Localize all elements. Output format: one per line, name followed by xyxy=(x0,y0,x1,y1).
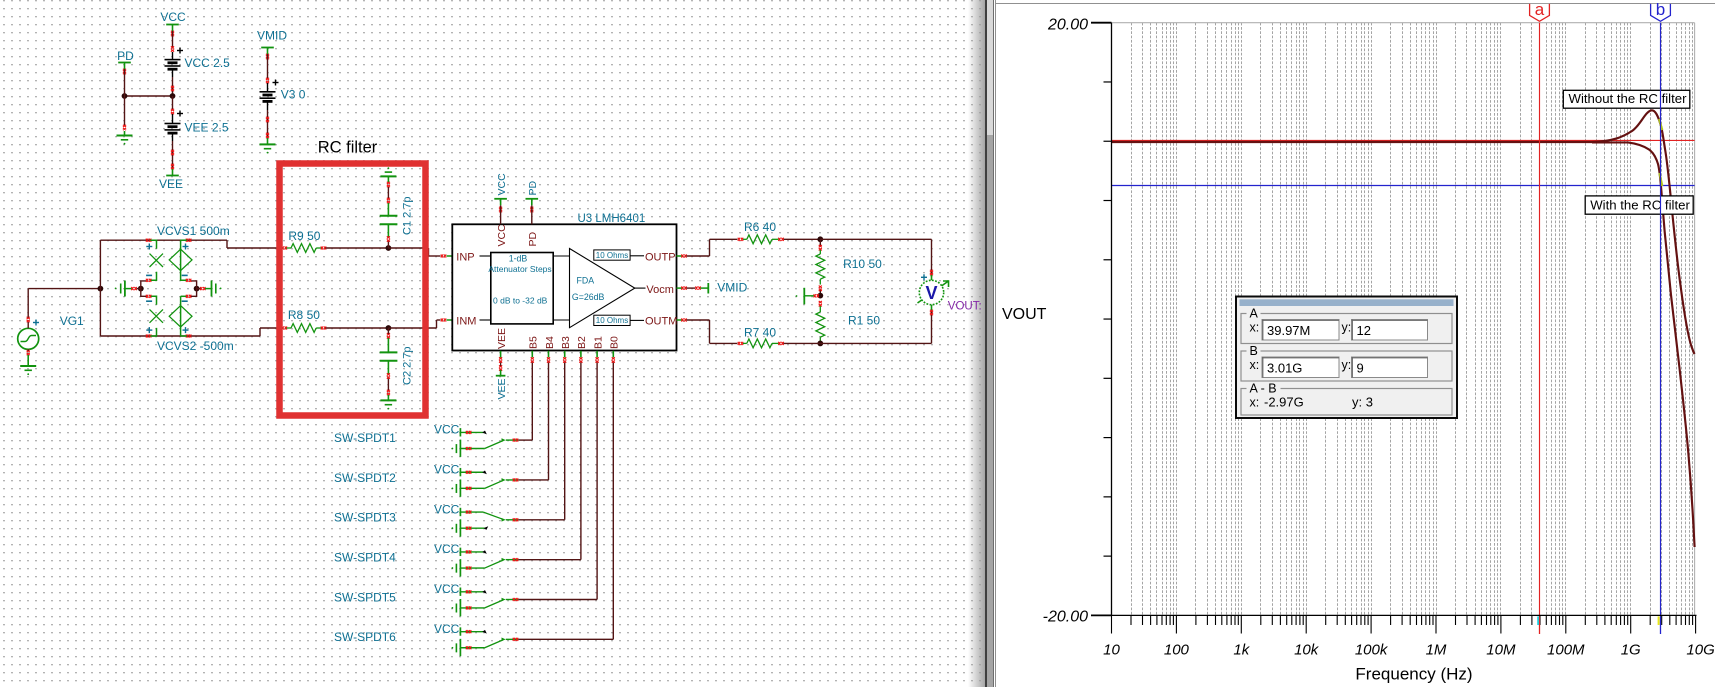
svg-text:12: 12 xyxy=(1357,323,1371,338)
svg-text:3.01G: 3.01G xyxy=(1267,361,1302,376)
svg-text:10M: 10M xyxy=(1486,642,1516,659)
svg-text:SW-SPDT4: SW-SPDT4 xyxy=(334,550,396,564)
svg-text:100M: 100M xyxy=(1547,642,1585,659)
svg-text:VG1: VG1 xyxy=(60,314,84,328)
svg-text:b: b xyxy=(1656,0,1665,19)
svg-text:x:: x: xyxy=(1250,358,1260,372)
svg-text:10 Ohms: 10 Ohms xyxy=(596,316,628,325)
svg-text:10: 10 xyxy=(1103,642,1120,659)
svg-text:VCC: VCC xyxy=(434,502,460,516)
svg-text:B4: B4 xyxy=(544,336,556,349)
svg-text:VCC 2.5: VCC 2.5 xyxy=(185,56,231,70)
svg-text:INP: INP xyxy=(456,251,474,263)
svg-text:10G: 10G xyxy=(1686,642,1715,659)
svg-text:SW-SPDT5: SW-SPDT5 xyxy=(334,590,396,604)
svg-text:20.00: 20.00 xyxy=(1047,17,1088,34)
svg-text:SW-SPDT1: SW-SPDT1 xyxy=(334,431,396,445)
svg-text:With the RC filter: With the RC filter xyxy=(1590,197,1690,212)
svg-text:39.97M: 39.97M xyxy=(1267,323,1310,338)
svg-text:1M: 1M xyxy=(1426,642,1447,659)
svg-text:VCVS2 -500m: VCVS2 -500m xyxy=(157,339,234,353)
svg-text:RC filter: RC filter xyxy=(318,139,378,157)
svg-text:-2.97G: -2.97G xyxy=(1264,395,1304,410)
svg-text:PD: PD xyxy=(117,49,134,63)
svg-text:0 dB to -32 dB: 0 dB to -32 dB xyxy=(493,295,548,305)
svg-text:B0: B0 xyxy=(609,336,621,349)
svg-text:B3: B3 xyxy=(560,336,572,349)
svg-text:1G: 1G xyxy=(1621,642,1641,659)
svg-text:B5: B5 xyxy=(528,336,540,349)
svg-text:y:: y: xyxy=(1342,321,1352,335)
svg-text:R7 40: R7 40 xyxy=(744,326,776,340)
svg-text:VOUT: VOUT xyxy=(1002,306,1047,323)
svg-text:R1 50: R1 50 xyxy=(848,314,880,328)
svg-text:SW-SPDT2: SW-SPDT2 xyxy=(334,471,396,485)
svg-text:1k: 1k xyxy=(1233,642,1250,659)
svg-text:VCC: VCC xyxy=(434,582,460,596)
svg-text:U3 LMH6401: U3 LMH6401 xyxy=(578,213,646,225)
svg-text:VCC: VCC xyxy=(434,462,460,476)
svg-text:R6 40: R6 40 xyxy=(744,220,776,234)
svg-text:Frequency (Hz): Frequency (Hz) xyxy=(1355,665,1472,684)
svg-text:VCVS1 500m: VCVS1 500m xyxy=(157,224,230,238)
svg-text:R9 50: R9 50 xyxy=(288,229,320,243)
svg-text:FDA: FDA xyxy=(577,276,595,286)
svg-text:OUTP: OUTP xyxy=(645,251,676,263)
svg-text:1-dB: 1-dB xyxy=(509,253,528,263)
svg-text:V: V xyxy=(925,283,937,303)
svg-text:VCC: VCC xyxy=(434,423,460,437)
svg-text:y: 3: y: 3 xyxy=(1352,395,1373,410)
svg-text:y:: y: xyxy=(1342,358,1352,372)
svg-text:C2 2.7p: C2 2.7p xyxy=(402,346,414,385)
svg-text:OUTM: OUTM xyxy=(645,316,677,328)
svg-text:VCC: VCC xyxy=(496,224,508,247)
svg-text:B: B xyxy=(1250,344,1258,358)
svg-text:R10 50: R10 50 xyxy=(843,257,882,271)
svg-text:VCC: VCC xyxy=(496,173,508,196)
svg-text:VEE: VEE xyxy=(496,328,508,349)
svg-text:R8 50: R8 50 xyxy=(288,308,320,322)
svg-text:VCC: VCC xyxy=(434,622,460,636)
svg-text:VEE: VEE xyxy=(496,378,508,399)
svg-text:-20.00: -20.00 xyxy=(1043,609,1088,626)
svg-text:PD: PD xyxy=(527,231,539,246)
svg-text:VCC: VCC xyxy=(434,542,460,556)
svg-text:x:: x: xyxy=(1250,321,1260,335)
svg-text:VOUT:: VOUT: xyxy=(948,301,982,313)
svg-text:SW-SPDT3: SW-SPDT3 xyxy=(334,511,396,525)
svg-text:INM: INM xyxy=(456,315,476,327)
svg-text:B1: B1 xyxy=(592,336,604,349)
svg-text:G=26dB: G=26dB xyxy=(572,292,605,302)
svg-text:C1 2.7p: C1 2.7p xyxy=(402,196,414,235)
svg-text:VCC: VCC xyxy=(160,10,186,24)
svg-text:100: 100 xyxy=(1164,642,1190,659)
svg-text:VMID: VMID xyxy=(717,281,747,295)
svg-text:SW-SPDT6: SW-SPDT6 xyxy=(334,630,396,644)
svg-text:10k: 10k xyxy=(1294,642,1320,659)
svg-text:a: a xyxy=(1535,0,1545,19)
svg-text:VEE 2.5: VEE 2.5 xyxy=(185,121,229,135)
svg-text:10 Ohms: 10 Ohms xyxy=(596,251,628,260)
svg-text:VMID: VMID xyxy=(257,29,287,43)
svg-text:Vocm: Vocm xyxy=(646,284,674,296)
svg-text:PD: PD xyxy=(527,180,539,195)
svg-text:x:: x: xyxy=(1250,396,1260,410)
svg-text:9: 9 xyxy=(1357,361,1364,376)
svg-text:V3 0: V3 0 xyxy=(281,88,306,102)
svg-text:A - B: A - B xyxy=(1250,382,1277,396)
svg-text:A: A xyxy=(1250,307,1259,321)
svg-text:Attenuator Steps: Attenuator Steps xyxy=(488,264,551,274)
svg-text:B2: B2 xyxy=(576,336,588,349)
svg-text:VEE: VEE xyxy=(159,177,183,191)
svg-text:100k: 100k xyxy=(1355,642,1389,659)
svg-text:Without the RC filter: Without the RC filter xyxy=(1569,91,1688,106)
